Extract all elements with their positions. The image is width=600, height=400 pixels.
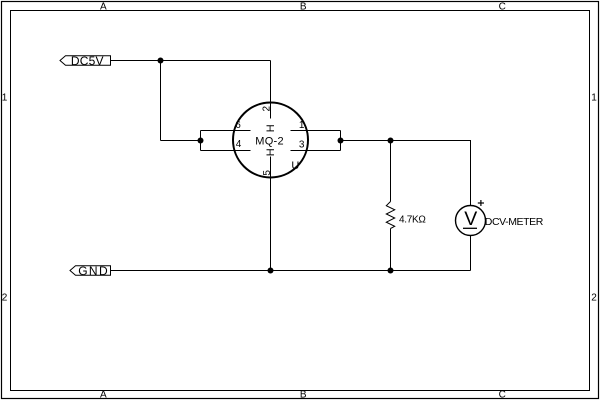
resistor R1 4.7K body <box>386 202 394 229</box>
svg-text:2: 2 <box>591 293 597 304</box>
svg-text:DCV-METER: DCV-METER <box>485 216 544 228</box>
wire to left pin group <box>161 140 201 142</box>
svg-text:1: 1 <box>299 120 305 131</box>
voltmeter DCV-METER body <box>456 206 486 236</box>
wire ground rail horizontal <box>111 270 471 272</box>
svg-text:2: 2 <box>261 105 272 111</box>
svg-text:1: 1 <box>2 93 8 104</box>
node junction resistor ground <box>388 268 394 274</box>
svg-text:V: V <box>464 208 477 230</box>
wire pin 1 <box>291 130 341 132</box>
wire resistor bottom lead <box>390 229 392 271</box>
wire pin 4 <box>201 150 251 152</box>
svg-text:4.7KΩ: 4.7KΩ <box>399 214 426 225</box>
svg-text:U: U <box>291 160 299 172</box>
svg-text:H: H <box>265 148 277 156</box>
wire branch down from DC5V junction <box>160 61 162 141</box>
svg-text:DC5V: DC5V <box>71 54 104 68</box>
svg-text:A: A <box>100 1 107 12</box>
power flag DC5V <box>60 54 111 68</box>
node junction pin5 ground <box>268 268 274 274</box>
svg-text:3: 3 <box>299 140 305 151</box>
node junction at DC5V branch <box>158 58 164 64</box>
wire pin2 vertical drop <box>270 61 272 119</box>
ground flag GND <box>70 264 111 278</box>
wire pin 5 to ground rail <box>270 157 272 271</box>
svg-text:C: C <box>499 1 506 12</box>
node junction at resistor top <box>388 138 394 144</box>
svg-text:MQ-2: MQ-2 <box>255 135 284 147</box>
meter plus polarity mark <box>478 200 484 206</box>
svg-text:C: C <box>499 389 506 400</box>
wire DC5V to pin2 drop (top horizontal) <box>111 60 271 62</box>
svg-text:5: 5 <box>262 170 273 176</box>
svg-text:B: B <box>300 1 307 12</box>
wire meter bottom lead <box>470 236 472 271</box>
wire left pin connector vertical <box>200 131 202 151</box>
wire right pin connector vertical <box>340 131 342 151</box>
svg-text:6: 6 <box>235 120 241 131</box>
sensor U1 MQ-2 body <box>233 103 308 178</box>
svg-text:4: 4 <box>236 139 242 150</box>
wire meter drop vertical <box>470 141 472 206</box>
svg-text:A: A <box>100 389 107 400</box>
svg-text:1: 1 <box>591 93 597 104</box>
node junction right pin group <box>338 138 344 144</box>
node junction left pin group <box>198 138 204 144</box>
svg-text:H: H <box>265 124 277 132</box>
wire pin 6 <box>201 130 251 132</box>
wire right pins to meter branch <box>341 140 472 142</box>
svg-text:GND: GND <box>78 264 109 278</box>
wire resistor top lead <box>390 141 392 202</box>
svg-text:B: B <box>300 389 307 400</box>
wire pin 3 <box>291 150 341 152</box>
svg-text:2: 2 <box>2 293 8 304</box>
